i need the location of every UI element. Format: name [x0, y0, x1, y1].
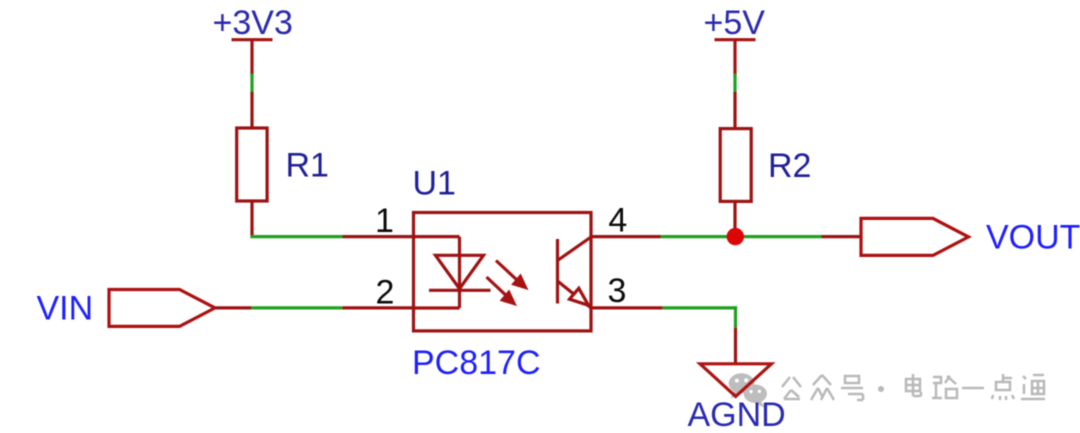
svg-text:2: 2 — [376, 273, 395, 311]
LED inside U1 — [414, 237, 491, 308]
junction dot — [727, 228, 744, 245]
· — [878, 386, 884, 392]
power symbol +5V — [715, 40, 756, 76]
phototransistor Q (inside U1) — [558, 237, 592, 308]
svg-text:R2: R2 — [768, 147, 811, 185]
power symbol +3V3 — [232, 40, 273, 76]
svg-text:VIN: VIN — [37, 289, 94, 327]
号 — [841, 376, 863, 400]
众 — [811, 375, 834, 400]
通 — [1021, 375, 1045, 399]
svg-text:R1: R1 — [286, 146, 329, 184]
wire pin3 to AGND — [591, 306, 737, 364]
svg-text:PC817C: PC817C — [412, 344, 541, 382]
svg-text:+3V3: +3V3 — [213, 4, 293, 42]
light emission arrows — [487, 261, 526, 304]
svg-text:1: 1 — [375, 202, 394, 240]
ground AGND — [700, 364, 772, 397]
wire R1 to U1 pin1 — [250, 235, 342, 238]
optocoupler U1 body — [414, 213, 592, 331]
port VIN — [109, 290, 215, 327]
port VOUT — [861, 218, 969, 255]
svg-text:4: 4 — [608, 201, 627, 239]
公 — [782, 377, 801, 399]
svg-text:3: 3 — [608, 272, 627, 310]
一 — [962, 387, 984, 390]
wire VIN to pin2 — [215, 306, 414, 309]
watermark wechat icon — [729, 373, 767, 407]
pin 1 lead — [343, 235, 415, 238]
svg-text:VOUT: VOUT — [986, 218, 1080, 256]
svg-text:AGND: AGND — [688, 396, 786, 433]
电 — [906, 374, 921, 396]
路 — [932, 376, 957, 398]
wire +3V3 to R1 — [250, 74, 253, 94]
resistor R1 — [237, 92, 267, 237]
wire +5V to R2 — [733, 74, 736, 94]
wire pin4 to VOUT — [591, 235, 861, 238]
svg-text:U1: U1 — [413, 165, 456, 203]
watermark text 公众号·电路一点通 — [782, 374, 1045, 400]
点 — [992, 374, 1014, 400]
svg-text:+5V: +5V — [704, 4, 766, 42]
resistor R2 — [720, 92, 751, 237]
